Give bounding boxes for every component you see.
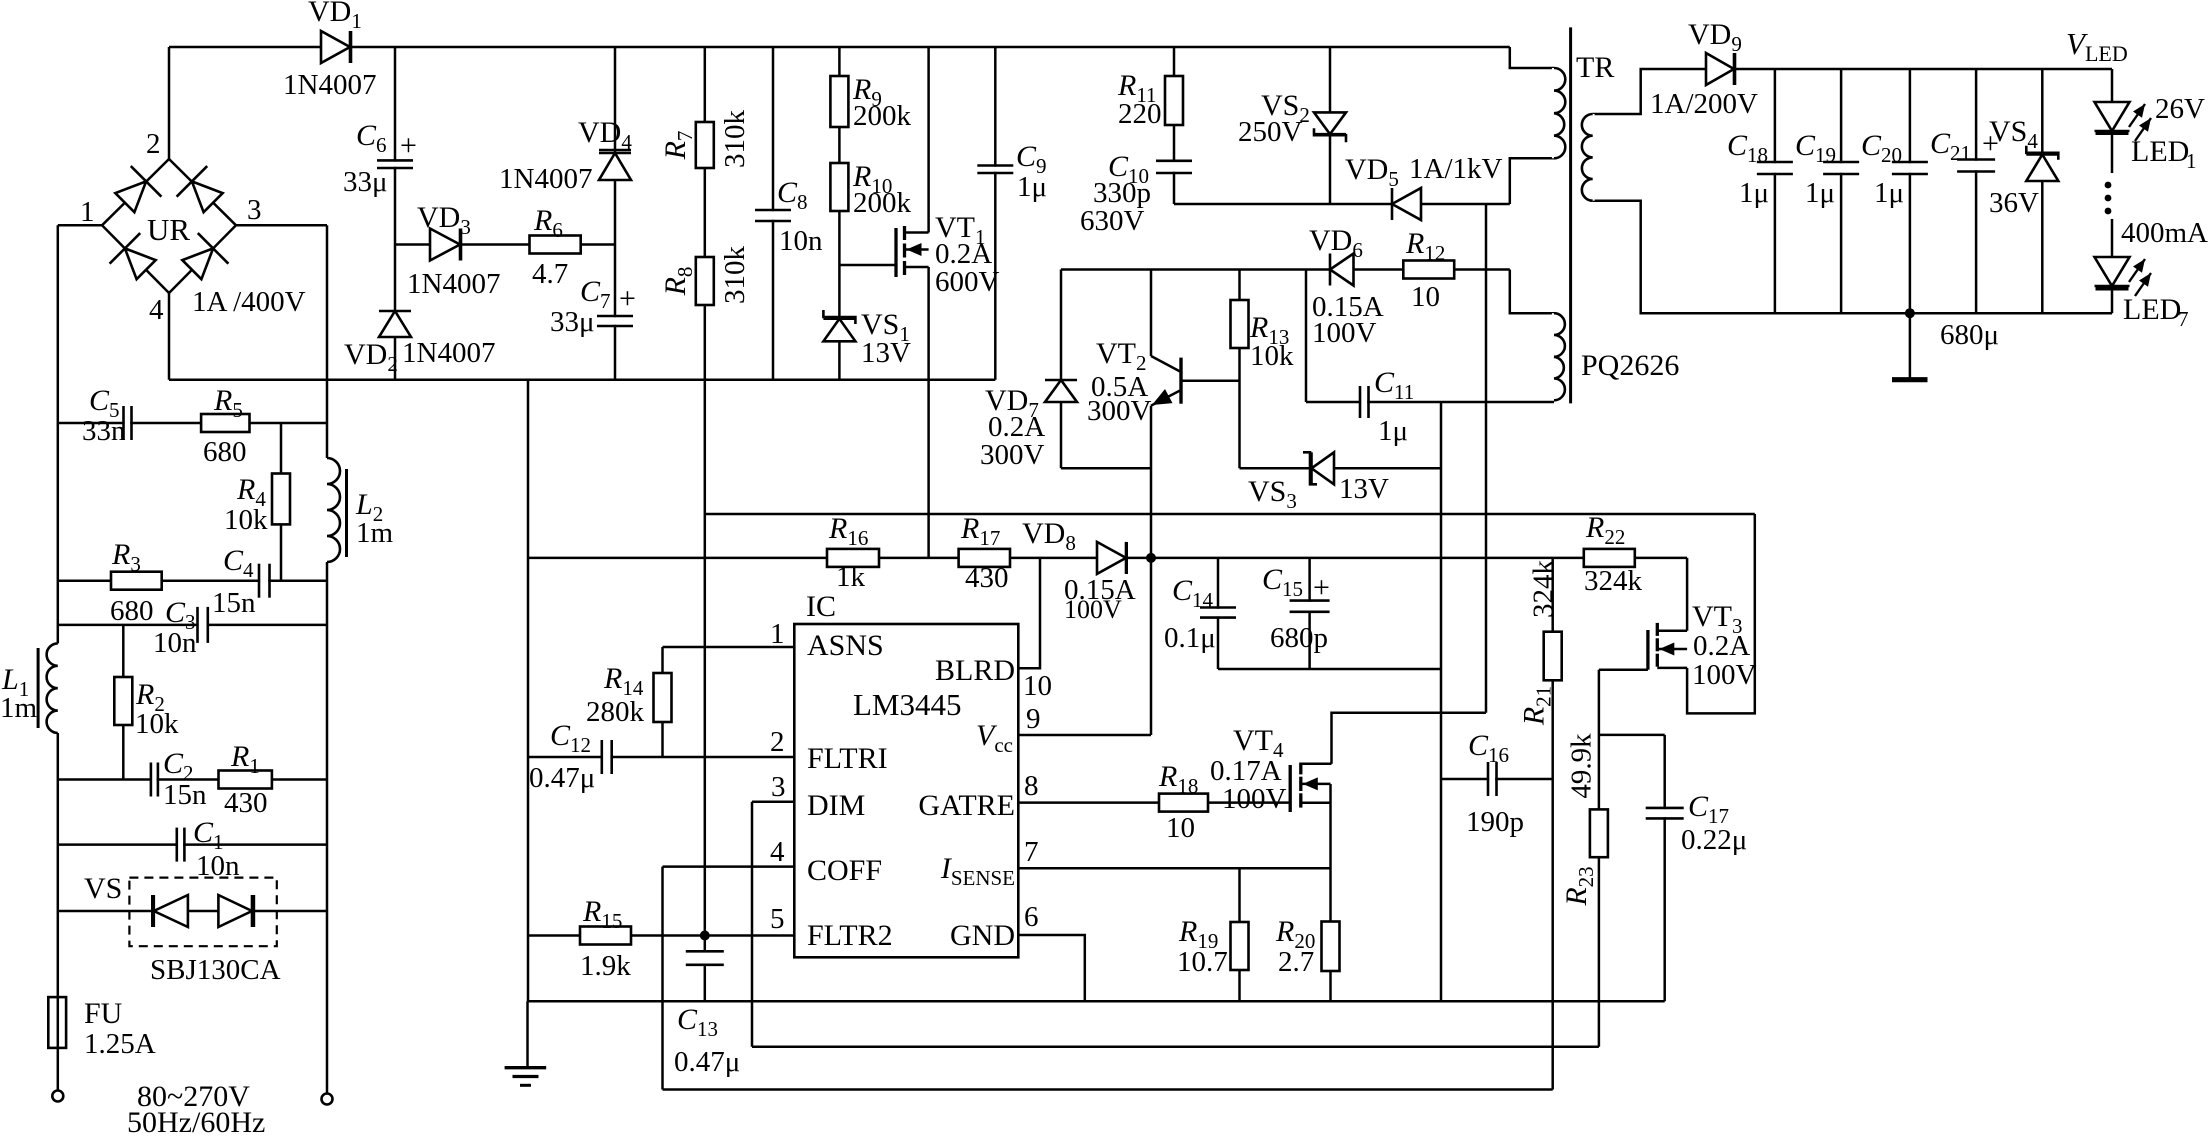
wire rectified bus down [527, 380, 530, 1002]
resistor R10 [830, 160, 911, 219]
surge suppressor VS SBJ130CA [84, 872, 281, 986]
svg-text:7: 7 [1024, 836, 1039, 868]
transformer TR [1552, 27, 1679, 403]
wire right AC rail [326, 225, 329, 1093]
pin 10 label [1023, 670, 1052, 702]
svg-text:2: 2 [146, 128, 161, 160]
svg-text:10k: 10k [224, 504, 268, 536]
capacitor C18 [1727, 129, 1793, 209]
diode VD1 [283, 0, 376, 101]
wire ISENSE pin 7 row [1018, 867, 1330, 870]
svg-text:100V: 100V [1312, 317, 1377, 349]
svg-text:33μ: 33μ [343, 166, 388, 198]
svg-text:VS: VS [84, 872, 122, 905]
LED LED7 [2095, 257, 2189, 331]
wire VD4 C7 branch [614, 47, 617, 380]
svg-text:GATRE: GATRE [918, 789, 1015, 822]
wire R3 C4 row [58, 579, 327, 582]
fuse FU [48, 997, 155, 1060]
wire C20 branch [1909, 69, 1912, 313]
wire VT2 collector [1150, 270, 1153, 357]
svg-text:PQ2626: PQ2626 [1581, 349, 1679, 382]
pin 3 label [771, 771, 786, 803]
svg-text:100V: 100V [1222, 783, 1287, 815]
svg-text:250V: 250V [1238, 116, 1303, 148]
wire transformer primary top [1510, 47, 1554, 68]
wire top rail to bridge node 2 [168, 47, 171, 159]
svg-text:1μ: 1μ [1739, 177, 1769, 209]
svg-text:1N4007: 1N4007 [499, 163, 592, 195]
svg-text:1μ: 1μ [1378, 415, 1408, 447]
diode VD3 [407, 201, 500, 300]
svg-text:10n: 10n [153, 627, 197, 659]
svg-text:680μ: 680μ [1940, 319, 1999, 351]
svg-text:200k: 200k [853, 187, 912, 219]
wire COFF pin 4 row [663, 865, 795, 868]
svg-text:FU: FU [84, 997, 123, 1030]
wire VT1 source [927, 267, 930, 558]
capacitor C10 [1080, 150, 1192, 237]
svg-text:8: 8 [1024, 770, 1039, 802]
resistor R14 [586, 662, 672, 728]
svg-text:310k: 310k [719, 246, 751, 305]
resistor R21 [1518, 560, 1562, 727]
wire top rail [169, 46, 1510, 49]
wire VT4 drain [1332, 713, 1486, 764]
wire C11 aux bottom row [1306, 401, 1554, 404]
svg-text:DIM: DIM [807, 789, 865, 822]
capacitor C15 [1262, 563, 1330, 654]
wire VD7 branch [1060, 270, 1063, 469]
resistor R23 [1560, 733, 1608, 907]
svg-text:1A/1kV: 1A/1kV [1409, 153, 1503, 185]
wire LED string bottom [2111, 219, 2114, 313]
svg-text:LED: LED [2131, 135, 2189, 168]
capacitor C5 [82, 384, 132, 447]
bridge rectifier UR [80, 128, 306, 326]
svg-text:1μ: 1μ [1874, 177, 1904, 209]
svg-text:BLRD: BLRD [935, 654, 1015, 687]
IC U1 LM3445 [794, 590, 1018, 957]
svg-text:5: 5 [770, 903, 785, 935]
resistor R15 [580, 895, 631, 982]
resistor R18 [1158, 760, 1208, 844]
wire LED string top [2111, 69, 2114, 173]
resistor R11 [1117, 69, 1183, 130]
svg-text:300V: 300V [980, 439, 1045, 471]
svg-text:324k: 324k [1584, 565, 1643, 597]
resistor R6 [530, 204, 581, 290]
wire left AC rail [57, 225, 60, 1091]
pin 6 label [1024, 901, 1039, 933]
resistor R7 [659, 110, 751, 169]
resistor R16 [827, 512, 879, 593]
pin 7 label [1024, 836, 1039, 868]
capacitor C17 [1646, 790, 1748, 856]
wire ASNS pin 1 row [663, 646, 795, 649]
wire DIM branch down [751, 802, 754, 1047]
svg-text:600V: 600V [935, 266, 1000, 298]
wire VD5 row [1174, 203, 1510, 206]
svg-text:GND: GND [950, 919, 1015, 952]
wire secondary bottom to output minus [1593, 201, 2112, 314]
svg-text:1N4007: 1N4007 [402, 337, 495, 369]
transistor VT2 [1087, 337, 1181, 427]
capacitor C19 [1795, 129, 1859, 209]
wire VS4 branch [2041, 69, 2044, 313]
svg-text:300V: 300V [1087, 395, 1152, 427]
svg-text:IC: IC [806, 590, 836, 623]
resistor R1 [219, 740, 272, 819]
svg-text:36V: 36V [1989, 187, 2039, 219]
wire C21 branch [1975, 69, 1978, 313]
svg-text:1N4007: 1N4007 [283, 69, 376, 101]
resistor R9 [830, 73, 911, 132]
wire transformer primary bottom [1510, 158, 1554, 204]
wire R4 branch [280, 423, 283, 581]
svg-text:26V: 26V [2155, 93, 2205, 125]
svg-text:3: 3 [771, 771, 786, 803]
svg-text:280k: 280k [586, 696, 645, 728]
wire C19 branch [1840, 69, 1843, 313]
capacitor C13 [674, 951, 740, 1078]
terminal AC L [52, 1091, 63, 1102]
svg-text:200k: 200k [853, 100, 912, 132]
capacitor C6 [343, 119, 417, 198]
svg-text:190p: 190p [1466, 806, 1524, 838]
pin 8 label [1024, 770, 1039, 802]
svg-text:1A /400V: 1A /400V [192, 286, 306, 318]
resistor R4 [224, 473, 290, 536]
wire C8 branch [772, 47, 775, 380]
wire C11 left leg [1305, 270, 1308, 403]
svg-text:10: 10 [1411, 281, 1440, 313]
wire VS3 C11 node down to ground bus [1440, 402, 1443, 1001]
wire C15 branch [1308, 558, 1311, 669]
wire C17 branch [1663, 735, 1666, 1001]
capacitor C11 [1360, 366, 1414, 447]
svg-text:ASNS: ASNS [807, 629, 884, 662]
svg-text:680: 680 [110, 595, 154, 627]
diode VD5 [1345, 153, 1503, 220]
svg-text:1: 1 [770, 618, 785, 650]
wire Vcc pin 9 row [1018, 734, 1151, 737]
svg-text:10.7: 10.7 [1177, 946, 1228, 978]
resistor R3 [110, 538, 162, 627]
svg-text:1A/200V: 1A/200V [1650, 88, 1758, 120]
junction Vcc node [1146, 553, 1156, 563]
capacitor C3 [153, 596, 208, 659]
svg-text:1: 1 [80, 196, 95, 228]
resistor R19 [1177, 915, 1249, 978]
svg-text:1: 1 [2186, 149, 2197, 173]
capacitor C21 [1930, 127, 1999, 351]
zener diode VS1 [823, 308, 911, 369]
wire C5 R5 row [58, 422, 327, 425]
wire BLRD pin 10 [1018, 558, 1040, 668]
zener diode VS4 [1989, 115, 2058, 219]
diode VD4 [499, 116, 632, 195]
wire VD6 R12 row [1061, 268, 1510, 271]
svg-text:LED: LED [2123, 293, 2181, 326]
diode VD6 [1309, 224, 1384, 349]
pin 1 label [770, 618, 785, 650]
ground output [1892, 313, 1928, 380]
wire C6 branch [394, 47, 397, 380]
svg-text:7: 7 [2178, 307, 2189, 331]
svg-text:+: + [1313, 571, 1330, 604]
wire aux winding top [1510, 270, 1554, 314]
svg-text:15n: 15n [212, 587, 256, 619]
resistor R17 [959, 512, 1010, 594]
svg-text:13V: 13V [1339, 473, 1389, 505]
wire C2 R1 row [58, 778, 327, 781]
svg-text:324k: 324k [1528, 560, 1560, 619]
wire C3 row [58, 624, 327, 627]
capacitor C16 [1466, 729, 1524, 838]
svg-text:10n: 10n [779, 225, 823, 257]
svg-text:1μ: 1μ [1017, 171, 1047, 203]
wire GND pin 6 [1018, 935, 1085, 1001]
ground main [505, 1001, 547, 1085]
svg-text:1k: 1k [836, 561, 866, 593]
svg-text:6: 6 [1024, 901, 1039, 933]
wire DC minus bus [169, 378, 995, 381]
svg-text:1m: 1m [356, 517, 394, 549]
wire C12 FLTRI row [528, 756, 794, 759]
diode VD8 [1022, 517, 1136, 624]
diode VD7 [980, 380, 1077, 471]
resistor R13 [1231, 300, 1295, 372]
zener diode VS2 [1238, 89, 1346, 148]
wire VS row [58, 910, 327, 913]
svg-text:2: 2 [770, 726, 785, 758]
wire VS3 row [1240, 467, 1442, 470]
svg-text:0.2A: 0.2A [1693, 630, 1750, 662]
svg-text:+: + [400, 129, 417, 162]
wire C16 row [1441, 778, 1553, 781]
wire R11 C10 branch [1173, 47, 1176, 204]
inductor L1 [0, 643, 60, 733]
resistor R22 [1584, 511, 1643, 597]
LED string ellipsis dots [2105, 182, 2208, 249]
wire bridge node 3 to right rail [236, 224, 327, 227]
wire R8 to VT3 source row [705, 513, 1755, 516]
wire VT3 drain [1686, 558, 1689, 631]
svg-text:430: 430 [965, 562, 1009, 594]
svg-text:10k: 10k [135, 708, 179, 740]
capacitor C20 [1861, 129, 1928, 209]
wire C14 C15 bottom row [1218, 668, 1441, 671]
wire VT1 drain [927, 47, 930, 233]
svg-text:4: 4 [149, 294, 164, 326]
resistor R2 [114, 677, 179, 740]
wire R2 branch [122, 625, 125, 780]
svg-text:COFF: COFF [807, 854, 882, 887]
wire R14 branch [661, 647, 664, 757]
label VLED [2066, 26, 2128, 66]
capacitor C7 [550, 275, 636, 338]
svg-text:680: 680 [203, 436, 247, 468]
svg-text:1.9k: 1.9k [580, 950, 631, 982]
wire R7 R8 divider line [704, 47, 707, 1001]
svg-text:1m: 1m [0, 692, 38, 724]
svg-text:1N4007: 1N4007 [407, 268, 500, 300]
svg-text:TR: TR [1576, 51, 1614, 84]
capacitor C8 [755, 176, 823, 257]
label AC input [127, 1080, 265, 1139]
diode VD9 [1650, 18, 1758, 120]
svg-text:10n: 10n [196, 850, 240, 882]
wire VT2 emitter to Vcc node [1150, 406, 1153, 735]
svg-text:0.22μ: 0.22μ [1681, 824, 1747, 856]
wire VD7 to VT2 emitter [1061, 467, 1151, 470]
transistor VT3 [1648, 600, 1757, 691]
wire DIM pin 3 row [752, 800, 794, 803]
svg-text:1.25A: 1.25A [84, 1028, 156, 1060]
svg-text:100V: 100V [1064, 595, 1122, 624]
wire R13 branch [1238, 270, 1241, 469]
svg-text:13V: 13V [861, 337, 911, 369]
svg-text:680p: 680p [1270, 622, 1328, 654]
wire R21 COFF branch [1551, 558, 1554, 1090]
wire VT4 source to R20 [1329, 784, 1332, 1001]
svg-text:UR: UR [147, 212, 190, 247]
svg-text:310k: 310k [719, 110, 751, 169]
inductor L2 [325, 458, 394, 562]
svg-text:0.47μ: 0.47μ [674, 1046, 740, 1078]
svg-text:50Hz/60Hz: 50Hz/60Hz [127, 1106, 265, 1139]
wire C1 row [58, 843, 327, 846]
svg-text:SBJ130CA: SBJ130CA [150, 954, 281, 986]
svg-text:2.7: 2.7 [1278, 946, 1314, 978]
wire Vcc supply row R16 R17 VD8 R22 [528, 557, 1687, 560]
pin 4 label [770, 836, 785, 868]
transistor VT4 [1210, 724, 1332, 815]
wire DIM bottom row [752, 1046, 1599, 1049]
wire COFF branch down [661, 867, 664, 1090]
svg-text:220: 220 [1118, 98, 1162, 130]
wire secondary top to VD9 [1593, 69, 2112, 114]
wire C9 branch [994, 47, 997, 380]
wire bridge node 4 down [168, 293, 171, 380]
capacitor C4 [212, 544, 270, 619]
svg-text:15n: 15n [163, 779, 207, 811]
resistor R12 [1403, 227, 1454, 313]
zener diode VS3 [1248, 452, 1389, 513]
wire ground bus [528, 1000, 1665, 1003]
wire R19 branch [1238, 868, 1241, 1001]
svg-text:49.9k: 49.9k [1566, 733, 1598, 799]
resistor R5 [201, 384, 249, 468]
wire VD3 R6 row [395, 243, 615, 246]
svg-text:10: 10 [1023, 670, 1052, 702]
capacitor C1 [177, 816, 240, 882]
LED LED1 [2095, 93, 2206, 173]
svg-text:FLTRI: FLTRI [807, 742, 888, 775]
wire C14 branch [1217, 558, 1220, 669]
wire VS2 branch [1329, 47, 1332, 204]
wire COFF bottom row [663, 1088, 1553, 1091]
wire R23 branch [1598, 670, 1601, 1047]
svg-text:400mA: 400mA [2121, 217, 2208, 249]
svg-text:LM3445: LM3445 [853, 687, 962, 722]
wire C17 top bridge [1599, 734, 1665, 737]
resistor R20 [1275, 915, 1340, 978]
svg-text:33n: 33n [82, 415, 126, 447]
wire R15 FLTR2 row [528, 934, 794, 937]
pin 5 label [770, 903, 785, 935]
svg-text:FLTR2: FLTR2 [807, 919, 893, 952]
svg-text:+: + [619, 282, 636, 315]
capacitor C2 [151, 747, 207, 811]
transistor VT1 [896, 211, 1000, 298]
svg-text:3: 3 [247, 194, 262, 226]
svg-text:630V: 630V [1080, 205, 1145, 237]
svg-text:0.47μ: 0.47μ [529, 762, 595, 794]
capacitor C14 [1164, 574, 1236, 654]
capacitor C9 [977, 140, 1047, 203]
wire VT3 source loop [1687, 514, 1755, 713]
wire VT3 gate [1599, 668, 1648, 671]
svg-text:4.7: 4.7 [532, 258, 568, 290]
wire bridge node 1 to left rail [58, 224, 102, 227]
wire VD5 node down to VT4 drain [1485, 204, 1488, 713]
pin 2 label [770, 726, 785, 758]
svg-text:100V: 100V [1692, 659, 1757, 691]
terminal AC N [322, 1094, 333, 1105]
junction output ground node [1905, 308, 1915, 318]
svg-text:33μ: 33μ [550, 306, 595, 338]
diode VD2 [344, 311, 495, 376]
svg-text:0.1μ: 0.1μ [1164, 622, 1216, 654]
wire C18 branch [1774, 69, 1777, 313]
wire R9 R10 VS1 branch [838, 47, 841, 380]
wire VT1 gate [839, 264, 896, 267]
svg-text:430: 430 [224, 787, 268, 819]
junction FLTR2 node [700, 931, 710, 941]
resistor R8 [659, 246, 751, 306]
svg-text:9: 9 [1026, 703, 1041, 735]
wire GATRE pin 8 to R18 VT4 gate [1018, 801, 1290, 804]
svg-text:4: 4 [770, 836, 785, 868]
svg-text:10: 10 [1166, 812, 1195, 844]
pin 9 label [1026, 703, 1041, 735]
svg-text:1μ: 1μ [1805, 177, 1835, 209]
wire VT2 base to R13 [1181, 379, 1240, 382]
capacitor C12 [529, 719, 612, 794]
svg-text:10k: 10k [1250, 340, 1294, 372]
